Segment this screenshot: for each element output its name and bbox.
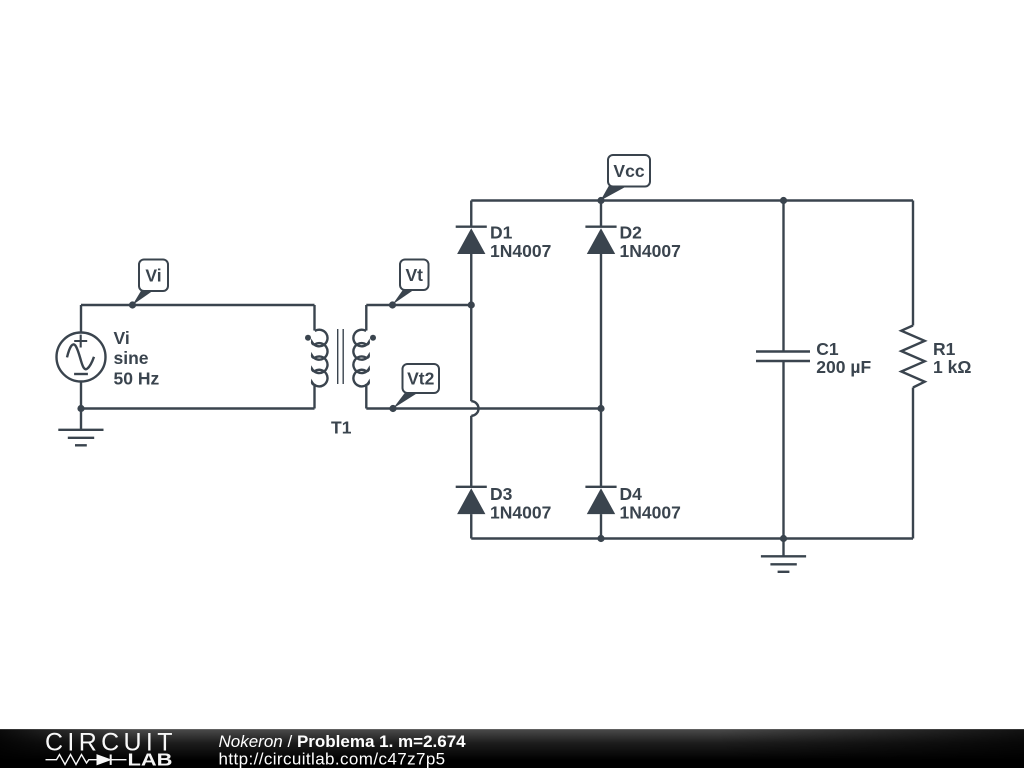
svg-text:Vi: Vi (145, 265, 161, 285)
svg-text:D2: D2 (620, 223, 643, 243)
node flag Vi (129, 260, 168, 309)
diode D4 (585, 487, 616, 514)
wire top rail Vcc (471, 199, 913, 201)
svg-text:Vi: Vi (114, 328, 130, 348)
ground (right) (761, 556, 806, 572)
junction dot Vt2 node (597, 405, 604, 412)
wire Vt node down to hop (470, 305, 472, 401)
wire source bottom lead (80, 382, 82, 430)
svg-text:C1: C1 (816, 339, 839, 359)
junction dot C1 top (780, 197, 787, 204)
svg-text:200 µF: 200 µF (816, 357, 871, 377)
wire D3 bottom lead (470, 514, 472, 538)
transformer phase dot secondary (370, 335, 376, 341)
transformer T1 core (338, 329, 344, 384)
svg-text:D4: D4 (620, 484, 643, 504)
resistor R1 (901, 326, 924, 388)
svg-text:D1: D1 (490, 223, 513, 243)
wire Vt2 (secondary bottom to bridge) (366, 407, 601, 409)
svg-text:T1: T1 (331, 417, 352, 437)
svg-text:1N4007: 1N4007 (620, 241, 681, 261)
junction dot source/ground (77, 405, 84, 412)
svg-text:R1: R1 (933, 339, 956, 359)
diode D2 (585, 227, 616, 254)
logo squiggle resistor-diode (46, 755, 127, 765)
banner bar (0, 729, 1024, 768)
wire hop to D3 (470, 416, 472, 487)
wire ground stem right (782, 539, 784, 557)
wire Vi bottom (81, 407, 315, 409)
wire hop over Vt2 (471, 401, 478, 416)
wire D1 to Vt node (470, 254, 472, 305)
svg-text:Nokeron / Problema 1. m=2.674: Nokeron / Problema 1. m=2.674 (219, 732, 467, 751)
svg-text:50 Hz: 50 Hz (114, 369, 160, 389)
wire D4 bottom lead (600, 514, 602, 538)
transformer T1 secondary coil (353, 305, 368, 409)
capacitor C1 (756, 352, 810, 362)
wire bottom rail (471, 537, 913, 539)
svg-text:Vcc: Vcc (613, 161, 644, 181)
svg-text:1N4007: 1N4007 (490, 502, 551, 522)
svg-text:1 kΩ: 1 kΩ (933, 357, 971, 377)
svg-text:sine: sine (114, 348, 149, 368)
junction dot Vt node (468, 301, 475, 308)
junction dot C1 bottom (780, 535, 787, 542)
svg-text:Vt: Vt (406, 265, 424, 285)
voltage source Vi (57, 333, 106, 382)
transformer T1 primary coil (312, 305, 327, 409)
junction dot D4 bottom (597, 535, 604, 542)
junction dot Vcc node (597, 197, 604, 204)
wire D2 top lead (600, 201, 602, 227)
wire Vi top (81, 304, 315, 306)
node flag Vt2 (389, 364, 439, 412)
transformer phase dot primary (305, 335, 311, 341)
wire C1 top lead (782, 201, 784, 352)
wire Vt (secondary top to bridge) (366, 304, 471, 306)
wire source top lead (80, 305, 82, 333)
wire C1 bottom lead (782, 361, 784, 539)
wire Vt2 node to D4 (600, 409, 602, 487)
diode D3 (456, 487, 487, 514)
wire R1 bottom lead (912, 388, 914, 539)
svg-text:1N4007: 1N4007 (620, 502, 681, 522)
wire R1 top lead (912, 201, 914, 326)
svg-text:D3: D3 (490, 484, 513, 504)
ground (left) (58, 430, 103, 446)
diode D1 (456, 227, 487, 254)
svg-text:Vt2: Vt2 (407, 369, 435, 389)
wire D1 top lead (470, 201, 472, 227)
node flag Vt (389, 260, 429, 309)
node flag Vcc (601, 155, 651, 201)
svg-text:LAB: LAB (128, 750, 173, 768)
svg-text:http://circuitlab.com/c47z7p5: http://circuitlab.com/c47z7p5 (219, 750, 446, 768)
svg-text:1N4007: 1N4007 (490, 241, 551, 261)
wire D2 to Vt2 node (600, 254, 602, 409)
